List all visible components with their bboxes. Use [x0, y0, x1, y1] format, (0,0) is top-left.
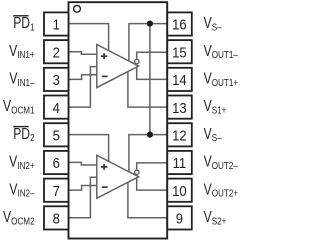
pin box 3	[44, 68, 69, 91]
wire VOCM2: pin 8 to U2 mid input	[68, 177, 97, 218]
svg-text:8: 8	[53, 211, 61, 227]
pin box 6	[44, 151, 69, 174]
svg-text:12: 12	[172, 128, 187, 144]
svg-text:10: 10	[172, 183, 187, 199]
svg-text:4: 4	[53, 100, 61, 116]
svg-text:9: 9	[176, 211, 184, 227]
label PD2 overline	[13, 126, 28, 128]
wire VIN2+: pin 6 to U2 + input	[68, 162, 97, 165]
pin box 4	[44, 96, 69, 119]
pin box 12	[167, 123, 192, 146]
U2 + input symbol	[101, 164, 108, 170]
svg-text:15: 15	[172, 45, 187, 61]
pin box 9	[167, 206, 192, 229]
pin box 8	[44, 206, 69, 229]
pin 1 indicator circle	[74, 5, 81, 12]
pin box 5	[44, 123, 69, 146]
op-amp U2 (fully differential amplifier, channel 2)	[97, 155, 139, 198]
svg-text:1: 1	[53, 17, 60, 33]
svg-text:14: 14	[172, 72, 187, 88]
pin box 7	[44, 179, 69, 202]
U1 inverting output bubble	[135, 59, 139, 63]
op-amp U1 (fully differential amplifier, channel 1)	[97, 45, 139, 88]
junction node on VS- rail at pin 12 wire	[147, 132, 153, 138]
svg-text:3: 3	[53, 72, 61, 88]
svg-text:2: 2	[53, 45, 60, 61]
pin box 15	[167, 40, 192, 63]
wire PD2: pin 5 to U2 top edge	[68, 135, 109, 162]
wire VS1+: pin 13 to U1 lower edge	[128, 72, 168, 108]
svg-text:7: 7	[53, 183, 60, 199]
pin box 14	[167, 68, 192, 91]
svg-text:16: 16	[172, 17, 187, 33]
svg-text:13: 13	[172, 100, 187, 116]
wire VOUT1+: pin 14 to U1 lower edge	[137, 67, 168, 80]
wire VOUT2+: pin 10 to U2 lower edge	[137, 178, 168, 191]
label PD1 overline	[13, 15, 28, 17]
pin box 2	[44, 40, 69, 63]
wire VS- pin 12 branch to U2 top edge	[129, 135, 168, 172]
wire VS- rail pin16 to pin12	[149, 24, 151, 135]
wire VIN1+: pin 2 to U1 + input	[68, 52, 97, 55]
pin box 11	[167, 151, 192, 174]
junction node on VS- rail at pin 16 wire	[147, 21, 153, 27]
pin box 10	[167, 179, 192, 202]
U2 inverting output bubble	[135, 170, 139, 174]
wire VIN1-: pin 3 to U1 - input	[68, 75, 97, 80]
pin box 13	[167, 96, 192, 119]
wire PD1: pin 1 to U1 top edge	[68, 24, 109, 51]
svg-text:5: 5	[53, 128, 61, 144]
U1 - input symbol	[102, 75, 108, 77]
svg-text:6: 6	[53, 156, 61, 172]
wire VOUT2-: pin 11 to U2 inverting output bubble	[137, 163, 168, 170]
U1 + input symbol	[101, 53, 108, 59]
pin box 16	[167, 12, 192, 35]
package outline (16-pin IC body)	[69, 2, 168, 238]
wire VS2+: pin 9 to U2 lower edge	[128, 182, 168, 218]
U2 - input symbol	[102, 186, 108, 188]
wire VOUT1-: pin 15 to U1 inverting output bubble	[137, 52, 168, 59]
svg-text:11: 11	[173, 156, 187, 172]
wire VS- pin 16 branch to U1 top edge	[129, 24, 168, 62]
pin box 1	[44, 12, 69, 35]
wire VIN2-: pin 7 to U2 - input	[68, 186, 97, 191]
wire VOCM1: pin 4 to U1 mid input	[68, 67, 97, 108]
